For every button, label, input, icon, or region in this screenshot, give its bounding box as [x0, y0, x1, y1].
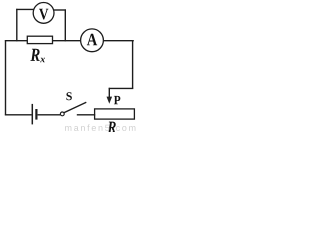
label S	[66, 92, 71, 100]
wire: main horizontal (node between Rx and ammeter)	[5, 40, 134, 42]
label P	[114, 96, 120, 104]
watermark	[65, 124, 135, 131]
wire: battery to switch	[38, 114, 61, 116]
ammeter A	[81, 29, 104, 52]
wire: jog to wiper	[109, 87, 134, 89]
wire: voltmeter loop top-left stub	[16, 8, 34, 10]
wire: right vertical	[132, 40, 134, 88]
switch S: lever	[64, 102, 86, 112]
wire: bottom left segment	[5, 114, 32, 116]
switch S: pivot	[60, 112, 64, 116]
wire: voltmeter loop top-right stub	[53, 9, 66, 11]
label R	[107, 122, 115, 133]
wire: left vertical	[5, 40, 7, 115]
wire: voltmeter loop right vertical	[64, 9, 66, 41]
battery: short plate	[35, 109, 37, 120]
resistor Rx (box)	[27, 36, 52, 43]
rheostat R (box)	[95, 109, 135, 119]
wire: switch to rheostat	[77, 114, 95, 116]
voltmeter V	[33, 3, 54, 24]
battery: long plate	[31, 104, 33, 125]
wire: voltmeter loop left vertical	[16, 9, 18, 42]
label Rx	[30, 49, 39, 61]
wiper arrow of rheostat	[108, 88, 110, 98]
